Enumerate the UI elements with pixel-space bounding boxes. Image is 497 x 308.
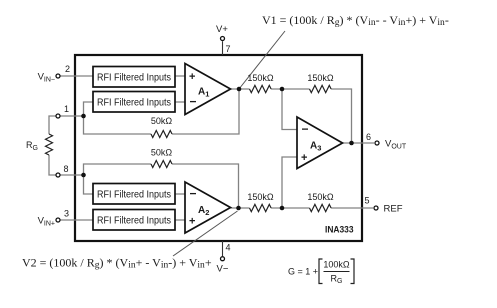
svg-text:100kΩ: 100kΩ: [323, 260, 350, 270]
svg-text:RFI Filtered Inputs: RFI Filtered Inputs: [97, 215, 171, 227]
pin 2 terminal: [56, 74, 60, 78]
wire pin1 to junction: [61, 115, 84, 117]
resistor 50k (A2 feedback): [151, 148, 173, 168]
RFI Filtered Inputs block 3: [93, 184, 175, 205]
svg-text:4: 4: [226, 243, 231, 253]
wire 50k-1 right to A1 output: [172, 89, 239, 134]
wire RFI1 to A1 plus: [175, 75, 185, 77]
svg-text:V2 = (100k / Rg) * (Vin+ - Vin: V2 = (100k / Rg) * (Vin+ - Vin-) + Vin+: [22, 256, 212, 271]
svg-text:V1 = (100k / Rg) * (Vin- - Vin: V1 = (100k / Rg) * (Vin- - Vin+) + Vin-: [262, 13, 449, 28]
junction node pin1: [81, 114, 86, 119]
junction node A2 output: [236, 206, 241, 211]
wire junction1 down to 50k wire: [84, 116, 152, 134]
svg-text:3: 3: [64, 209, 69, 219]
wire between 150k bottom pair: [271, 207, 310, 209]
wire junction8 up to 50k wire 2: [84, 164, 152, 175]
resistor 50k (A1 feedback): [151, 116, 173, 138]
callout line V1 to A1 output node: [239, 31, 285, 89]
wire pin3 to RFI4: [61, 219, 94, 221]
gain equation G = 1 + [100kOhm/RG]: [288, 259, 354, 285]
op-amp A2: [185, 182, 231, 233]
wire junction8 down to RFI3: [84, 175, 94, 194]
svg-text:6: 6: [366, 132, 371, 142]
pin 5 REF: [365, 196, 403, 215]
svg-text:150kΩ: 150kΩ: [307, 73, 334, 83]
svg-text:RG: RG: [26, 140, 38, 152]
svg-text:−: −: [302, 122, 309, 136]
wire junction1 up to RFI2: [84, 102, 94, 116]
RFI Filtered Inputs block 1: [93, 67, 175, 88]
pin 3 terminal: [56, 218, 60, 222]
wire RFI2 to A1 minus: [175, 101, 185, 103]
svg-text:50kΩ: 50kΩ: [151, 148, 173, 158]
svg-text:RFI Filtered Inputs: RFI Filtered Inputs: [97, 72, 171, 84]
svg-text:1: 1: [64, 104, 69, 114]
wire A3 output to pin6: [343, 142, 375, 144]
svg-text:INA333: INA333: [325, 225, 354, 236]
junction node A3 minus input: [280, 87, 285, 92]
junction node A3 output: [349, 141, 354, 146]
resistor RG external: [26, 134, 52, 155]
svg-text:RG: RG: [331, 274, 343, 286]
junction node pin8: [81, 173, 86, 178]
pin 7 V+ supply: [216, 24, 230, 55]
wire 50k-2 right to A2 output: [172, 164, 239, 208]
svg-text:150kΩ: 150kΩ: [307, 192, 334, 202]
svg-text:+: +: [189, 216, 195, 228]
svg-text:V−: V−: [217, 264, 229, 275]
wire bottom junction up to A3 plus: [282, 157, 297, 208]
svg-text:5: 5: [365, 196, 370, 206]
svg-text:−: −: [190, 95, 197, 109]
callout line A2 output node to V2: [173, 211, 238, 256]
RFI Filtered Inputs block 4: [93, 210, 175, 231]
IC boundary box INA333: [75, 55, 362, 241]
wire pin2 to RFI1: [61, 75, 94, 77]
resistor 150k (A3 feedback): [307, 73, 334, 93]
svg-text:VIN+: VIN+: [38, 216, 55, 228]
resistor 150k (A1 to A3 minus): [247, 73, 274, 93]
svg-text:+: +: [301, 152, 307, 164]
svg-text:V+: V+: [216, 24, 228, 35]
wire top junction down to A3 minus: [282, 89, 297, 130]
wire RG bottom: [49, 155, 56, 175]
svg-text:150kΩ: 150kΩ: [247, 73, 274, 83]
svg-text:VOUT: VOUT: [385, 139, 407, 151]
wire pin8 to junction: [61, 174, 84, 176]
junction node A1 output: [237, 87, 242, 92]
wire A1 output to 150k: [231, 88, 250, 90]
svg-text:REF: REF: [384, 204, 403, 215]
wire A2 output to 150k: [231, 207, 250, 209]
op-amp A3: [297, 117, 343, 169]
wire 150k to REF pin5: [331, 207, 373, 209]
wire RFI4 to A2 plus: [175, 219, 185, 221]
svg-text:+: +: [189, 71, 195, 83]
pin 8 terminal: [56, 173, 60, 177]
svg-text:50kΩ: 50kΩ: [151, 116, 173, 126]
resistor 150k (A3 plus to REF): [307, 192, 334, 212]
svg-text:G = 1 +: G = 1 +: [288, 267, 318, 277]
wire between 150k top pair: [271, 88, 310, 90]
resistor 150k (A2 to A3 plus): [247, 192, 274, 212]
pin 6 VOUT: [366, 132, 407, 151]
wire 150k feedback to A3 output: [331, 89, 352, 143]
svg-text:2: 2: [65, 64, 70, 74]
wire RFI3 to A2 minus: [175, 193, 185, 195]
op-amp A1: [185, 64, 231, 115]
RFI Filtered Inputs block 2: [93, 92, 175, 113]
pin 1 terminal: [56, 114, 60, 118]
pin 4 V- supply: [217, 241, 231, 275]
svg-text:150kΩ: 150kΩ: [247, 192, 274, 202]
junction node A3 plus input: [280, 206, 285, 211]
svg-text:RFI Filtered Inputs: RFI Filtered Inputs: [97, 97, 171, 109]
svg-text:RFI Filtered Inputs: RFI Filtered Inputs: [97, 189, 171, 201]
wire RG top: [49, 116, 56, 134]
svg-text:7: 7: [226, 44, 231, 54]
svg-text:−: −: [190, 187, 197, 201]
svg-text:8: 8: [64, 164, 69, 174]
svg-text:VIN−: VIN−: [38, 72, 55, 84]
